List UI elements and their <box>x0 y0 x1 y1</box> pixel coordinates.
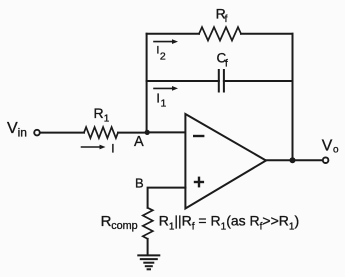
svg-text:1: 1 <box>161 97 167 109</box>
wire top rail right of Rf <box>241 33 293 35</box>
wire node A to op-amp inverting input <box>147 131 185 133</box>
svg-text:comp: comp <box>111 220 137 232</box>
svg-text:o: o <box>333 145 339 156</box>
output terminal Vo <box>323 157 329 163</box>
resistor Rf <box>199 27 241 40</box>
wire op-amp output <box>266 159 323 161</box>
wire Cf rail left of capacitor <box>147 80 219 82</box>
output junction node <box>290 157 296 163</box>
current arrow I2 <box>154 39 178 44</box>
wire node A up to feedback rails <box>146 34 148 133</box>
svg-text:2: 2 <box>160 51 166 63</box>
svg-text:in: in <box>18 126 27 140</box>
capacitor Cf <box>219 70 224 92</box>
label Cf <box>217 51 229 70</box>
svg-text:B: B <box>135 176 144 191</box>
label R1 <box>94 105 110 125</box>
formula label R1||Rf = R1(as Rf>>R1) <box>159 213 299 233</box>
label I1 <box>156 92 166 110</box>
ground <box>138 255 159 269</box>
svg-text:R1||Rf = R1(as Rf>>R1): R1||Rf = R1(as Rf>>R1) <box>159 213 299 233</box>
svg-text:1: 1 <box>104 114 110 125</box>
current arrow I <box>82 145 106 150</box>
svg-text:f: f <box>225 14 228 25</box>
wire R1 to node A <box>118 132 147 134</box>
op-amp U1 <box>185 114 266 209</box>
label B <box>135 176 144 191</box>
wire top rail left of Rf <box>147 33 199 35</box>
svg-text:R: R <box>94 105 104 121</box>
node B wire to op-amp non-inverting input <box>148 188 186 208</box>
wire Rcomp to ground <box>147 239 149 255</box>
op-amp inverting pin (minus) <box>194 135 203 137</box>
label A <box>134 134 144 150</box>
input terminal Vin <box>34 130 40 136</box>
svg-text:f: f <box>225 58 228 69</box>
resistor Rcomp <box>143 208 153 239</box>
resistor R1 <box>84 127 118 138</box>
label Rcomp <box>101 213 138 232</box>
label Rf <box>216 5 228 25</box>
svg-text:V: V <box>7 120 18 137</box>
label Vin <box>7 120 27 140</box>
label Vo <box>322 137 339 155</box>
node A <box>145 130 150 135</box>
wire right feedback vertical to output node <box>292 34 294 161</box>
svg-text:A: A <box>134 134 144 150</box>
svg-text:I: I <box>111 142 114 156</box>
wire Vin to R1 <box>40 132 84 134</box>
svg-text:R: R <box>101 213 112 230</box>
label I <box>111 142 114 156</box>
label I2 <box>156 44 166 62</box>
wire Cf rail right of capacitor <box>224 80 293 82</box>
svg-text:V: V <box>322 137 333 154</box>
current arrow I1 <box>154 86 178 91</box>
svg-text:I: I <box>156 92 159 106</box>
op-amp non-inverting pin (plus) <box>195 178 203 186</box>
